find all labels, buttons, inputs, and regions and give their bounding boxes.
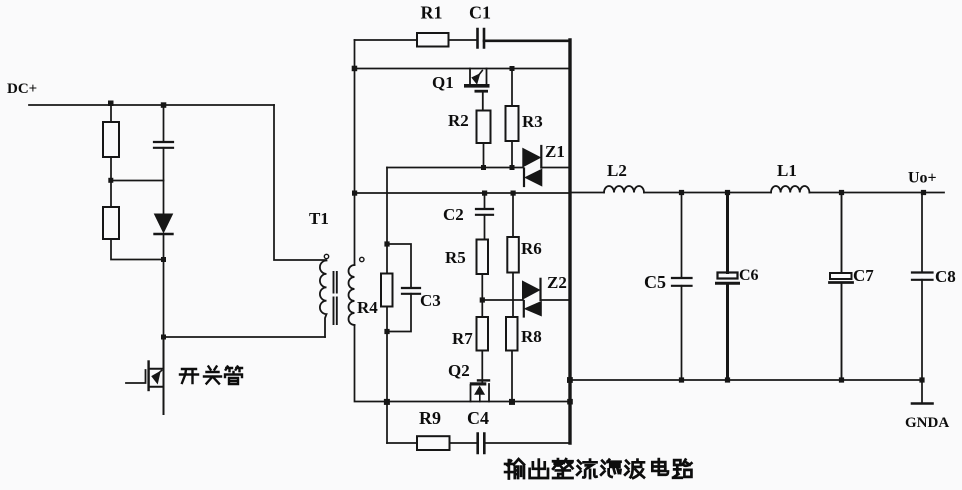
node source-wire junction: [384, 399, 390, 405]
capacitor C8: [912, 273, 933, 280]
node C7 bottom: [839, 377, 844, 382]
diode input D: [155, 214, 173, 233]
svg-text:DC+: DC+: [7, 81, 37, 97]
transistor switching MOSFET arrow: [156, 371, 162, 376]
svg-text:R2: R2: [448, 111, 469, 130]
transistor switching MOSFET gate bar: [147, 362, 149, 391]
node R3 bottom junction: [510, 165, 515, 170]
wire R2 bottom: [483, 143, 485, 168]
svg-text:Q1: Q1: [432, 73, 454, 92]
capacitor C6 polarized plate: [718, 273, 738, 279]
node C5 top: [679, 190, 684, 195]
diode Z2 lower triangle: [525, 302, 542, 316]
node R3 top junction: [510, 66, 515, 71]
wire R4 bottom lead: [386, 307, 388, 332]
wire R9 to C4: [450, 442, 478, 444]
resistor R6: [507, 237, 519, 273]
resistor R1: [417, 33, 449, 47]
diode Z1 upper bar: [540, 146, 542, 168]
wire cap branch middle: [163, 148, 165, 214]
resistor input R upper: [103, 122, 119, 157]
wire Q2 source rail: [387, 401, 571, 403]
wire cap branch upper: [163, 105, 165, 142]
ground GNDA bar: [912, 402, 933, 405]
node C2 top junction: [482, 191, 487, 196]
transistor Q1 stubs: [470, 69, 487, 85]
wire left branch upper: [110, 105, 112, 122]
svg-text:Z2: Z2: [547, 273, 567, 292]
capacitor input C: [154, 141, 173, 143]
svg-text:L2: L2: [607, 161, 627, 180]
svg-text:C5: C5: [644, 272, 666, 292]
transformer T1 secondary winding: [349, 265, 355, 325]
svg-text:R6: R6: [521, 239, 542, 258]
svg-text:C8: C8: [935, 267, 956, 286]
transistor Q1 channel bar: [464, 84, 490, 88]
node R2 bottom junction: [481, 165, 486, 170]
diode Z2 lower bar: [523, 301, 525, 317]
wire Z1 to right bus: [541, 167, 570, 169]
diode Z2 upper bar: [539, 279, 541, 300]
node R6 top junction: [511, 191, 516, 196]
transistor switching MOSFET body box: [149, 369, 164, 387]
svg-text:C3: C3: [420, 291, 441, 310]
svg-text:GNDA: GNDA: [905, 415, 949, 431]
wire C3 top branch: [387, 244, 411, 288]
node input junction B: [161, 102, 167, 108]
wire snubber lower bus: [387, 167, 523, 169]
node primary-bottom junction: [161, 335, 166, 340]
resistor R5: [477, 240, 489, 275]
capacitor C7 polarized plate: [830, 273, 852, 279]
wire secondary bottom drop: [355, 325, 387, 402]
wire output ground bus: [570, 379, 922, 381]
transistor Q2 channel bar: [470, 382, 487, 385]
inductor L2: [604, 186, 644, 193]
wire Q1 gate to R2: [482, 93, 484, 111]
wire merged drop to drain: [163, 234, 165, 337]
node C7 top: [839, 190, 844, 195]
node Q2 rail to bus: [567, 399, 573, 405]
svg-text:R4: R4: [357, 298, 378, 317]
text switching-tube 开关管: [180, 367, 242, 385]
resistor R4: [381, 274, 393, 307]
svg-text:C7: C7: [853, 266, 874, 285]
wire mid bus to Z2: [482, 299, 523, 301]
node C5 bottom: [679, 377, 684, 382]
capacitor C8 leads: [921, 193, 923, 381]
wire R1 to C1: [449, 39, 478, 41]
capacitor C4: [478, 434, 485, 454]
capacitor C5 leads: [681, 193, 683, 381]
wire GNDA drop: [921, 380, 923, 403]
resistor R3: [506, 106, 519, 141]
wire tie between branches: [111, 180, 164, 182]
transformer T1 secondary phase dot: [360, 257, 364, 261]
svg-text:Z1: Z1: [545, 142, 565, 161]
capacitor C7 leads: [841, 193, 843, 381]
text caption 输出整流滤波电路: [505, 459, 691, 478]
diode Z1 lower bar: [523, 169, 525, 187]
node merge junction: [161, 257, 166, 262]
transistor switching MOSFET gate lead: [126, 370, 146, 383]
svg-text:C4: C4: [467, 408, 489, 428]
resistor R9: [417, 436, 450, 450]
transistor Q2 stubs: [471, 384, 490, 402]
wire output rail with L2 L1: [570, 192, 604, 194]
svg-text:L1: L1: [777, 161, 797, 180]
wire top snubber left: [355, 39, 418, 41]
wire R6 to R8: [512, 273, 514, 318]
svg-text:R1: R1: [421, 3, 443, 23]
wire right bus: [568, 40, 571, 443]
svg-text:C1: C1: [469, 3, 491, 23]
capacitor C1: [478, 29, 485, 48]
wire R3 top: [511, 69, 513, 107]
wire R3 bottom: [511, 141, 513, 168]
capacitor C6 leads: [726, 193, 729, 381]
node tie junction: [108, 178, 113, 183]
wire R2R3-bus drop to R4: [386, 168, 388, 245]
wire secondary-top main bus: [355, 192, 571, 194]
wire secondary top riser: [354, 40, 356, 265]
wire R4 drop to source node: [386, 332, 388, 444]
wire left branch bottom corner: [111, 239, 164, 260]
svg-text:Q2: Q2: [448, 361, 470, 380]
svg-text:C2: C2: [443, 205, 464, 224]
transistor Q1 arrow: [478, 71, 482, 77]
wire R4 top lead: [386, 244, 388, 274]
resistor input R lower: [103, 207, 119, 239]
diode Z2 upper triangle: [523, 281, 540, 299]
svg-text:R5: R5: [445, 248, 466, 267]
wire left branch middle: [110, 157, 112, 207]
svg-text:R9: R9: [419, 408, 441, 428]
inductor L1: [771, 186, 809, 193]
resistor R8: [506, 317, 518, 351]
node C6 bottom: [725, 377, 730, 382]
wire C3 bottom branch: [387, 294, 411, 332]
wire L1 to output: [809, 192, 944, 194]
svg-text:R7: R7: [452, 329, 473, 348]
wire L2 to L1: [644, 192, 771, 194]
wire R7 to Q2 gate: [481, 351, 483, 383]
node C8 top: [921, 190, 926, 195]
transformer T1 primary winding: [320, 261, 327, 338]
node R4 bottom junction: [384, 329, 389, 334]
node Q1-rail tap: [352, 66, 358, 72]
wire R9 bottom rail: [387, 442, 417, 444]
svg-text:R3: R3: [522, 112, 543, 131]
wire R6 top lead: [512, 193, 514, 237]
wire C2 to R5: [484, 215, 486, 240]
wire drain stub: [163, 337, 165, 414]
capacitor C3: [402, 288, 420, 294]
wire input rail drop to transformer primary: [274, 105, 326, 260]
node C8 bottom GNDA tap: [919, 377, 924, 382]
transistor Q1 gate bar: [475, 90, 489, 93]
svg-text:T1: T1: [309, 209, 329, 228]
node C6 top: [725, 190, 730, 195]
wire DC+ input rail: [29, 104, 274, 106]
node ground bus left: [567, 377, 573, 383]
wire R8 bottom to source wire: [511, 351, 513, 402]
wire Z2 to right bus: [541, 299, 571, 301]
node R8 bottom junction: [509, 399, 515, 405]
transformer T1 primary phase dot: [324, 254, 328, 258]
svg-text:Uo+: Uo+: [908, 170, 937, 187]
wire C1 to right bus: [484, 39, 570, 42]
node input junction A: [108, 101, 114, 107]
wire Q1 rail: [355, 68, 571, 70]
wire C4 to right bus: [484, 442, 570, 444]
wire R5 bottom: [481, 274, 483, 317]
node R4 top junction: [384, 241, 389, 246]
svg-text:C6: C6: [739, 267, 759, 284]
diode Z1 upper triangle: [523, 149, 541, 167]
transistor Q2 arrow: [479, 394, 481, 402]
diode Z1 lower triangle: [525, 169, 542, 186]
resistor R2: [477, 111, 491, 144]
capacitor C2: [476, 209, 493, 215]
wire to transformer primary bottom: [164, 336, 326, 338]
capacitor C5: [672, 278, 692, 286]
capacitor C2 lead: [484, 193, 486, 209]
transistor Q2 gate bar: [477, 379, 490, 381]
resistor R7: [477, 317, 489, 351]
node R5-R7 junction: [480, 297, 485, 302]
node main bus left: [352, 191, 357, 196]
svg-text:R8: R8: [521, 327, 542, 346]
transformer T1 core: [334, 272, 337, 324]
